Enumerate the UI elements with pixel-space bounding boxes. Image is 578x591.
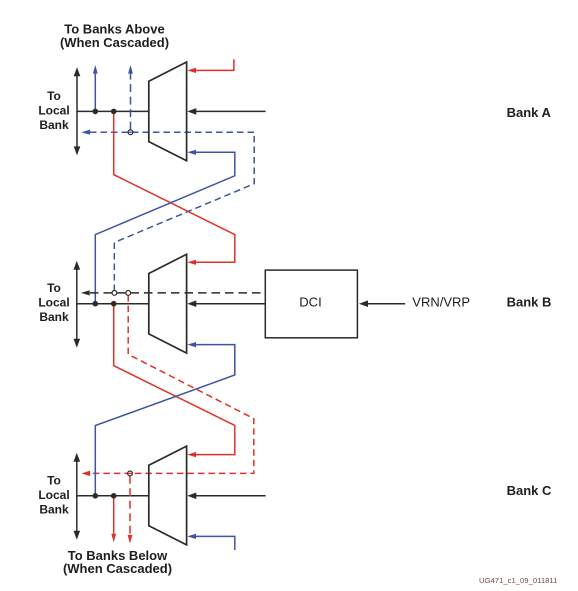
node To Local Bank B (vertical double arrow) (74, 261, 81, 348)
svg-text:To: To (47, 281, 61, 295)
svg-text:DCI: DCI (299, 295, 321, 310)
wire red dashed down-arrow C (cascade down) (128, 476, 133, 544)
mux Bank C (149, 446, 187, 545)
label To Local Bank A (38, 89, 69, 132)
svg-text:Bank C: Bank C (507, 483, 552, 498)
wire blue dashed up-arrow A (cascade up) (128, 65, 133, 130)
svg-text:Local: Local (38, 103, 69, 117)
label To Local Bank B (38, 281, 69, 324)
open node circle A (cascade tap) (128, 130, 133, 135)
wire blue dashed cascade path A (left arrow, through mux, down to bank B circle) (81, 130, 254, 293)
svg-text:(When Cascaded): (When Cascaded) (60, 35, 169, 50)
wire black input A from right (187, 108, 265, 115)
wire red solid cascade B to C (down from dot2 B, diagonal, into mux C) (114, 304, 235, 458)
svg-text:Local: Local (38, 296, 69, 310)
mux Bank A (149, 62, 187, 161)
mux Bank B (149, 254, 187, 353)
wire blue solid cascade C to B (from bank C dot1 up into mux B) (95, 342, 235, 496)
wire red solid down-arrow C (to banks below) (111, 496, 116, 543)
wire VRN/VRP input into DCI (359, 300, 405, 307)
junction dot2 C (111, 493, 117, 499)
junction dot1 C (93, 493, 99, 499)
block DCI U1 (265, 270, 357, 338)
junction dot2 B (111, 301, 117, 307)
junction dot1 B (93, 301, 99, 307)
wire local bus B (solid) (77, 303, 149, 305)
svg-text:To: To (47, 473, 61, 487)
junction dot1 A (93, 109, 99, 115)
svg-text:Bank: Bank (39, 118, 69, 132)
svg-text:Bank: Bank (39, 502, 69, 516)
svg-text:VRN/VRP: VRN/VRP (412, 295, 470, 310)
open node circle1 B (112, 291, 117, 296)
wire red stub from bank above into mux A (187, 59, 234, 73)
wire black input C from right (187, 493, 265, 500)
wire blue solid up-arrow A (to banks above) (93, 65, 98, 111)
svg-text:UG471_c1_09_011811: UG471_c1_09_011811 (479, 576, 557, 585)
node To Local Bank C (vertical double arrow) (74, 453, 81, 540)
open node circle C (cascade tap) (128, 471, 133, 476)
svg-text:Bank B: Bank B (507, 295, 552, 310)
svg-text:Bank: Bank (39, 310, 69, 324)
label To Local Bank C (38, 473, 69, 516)
wire red dashed cascade B to C (from circle2 B, diagonal, along bank C dashed bus to left arrow) (81, 295, 254, 476)
svg-text:Local: Local (38, 488, 69, 502)
node To Local Bank A (vertical double arrow) (74, 67, 81, 155)
wire blue solid cascade B to A (from bank B dot1 up into mux A) (95, 150, 235, 304)
wire blue stub from bank below into mux C (187, 534, 235, 550)
label To Banks Above (When Cascaded) (60, 22, 169, 50)
label To Banks Below (When Cascaded) (63, 548, 172, 576)
wire black dashed DCI bus B (left arrow through mux to DCI) (81, 290, 265, 295)
wire black input B from DCI (187, 300, 265, 307)
open node circle2 B (126, 291, 131, 296)
wire local bus A (solid) (77, 110, 149, 112)
svg-text:(When Cascaded): (When Cascaded) (63, 561, 172, 576)
svg-text:To: To (47, 89, 61, 103)
wire local bus C (solid) (77, 495, 149, 497)
junction dot2 A (111, 109, 117, 115)
wire red solid cascade A to B (down from dot2, diagonal, into mux B) (114, 111, 235, 265)
svg-text:Bank A: Bank A (507, 105, 552, 120)
